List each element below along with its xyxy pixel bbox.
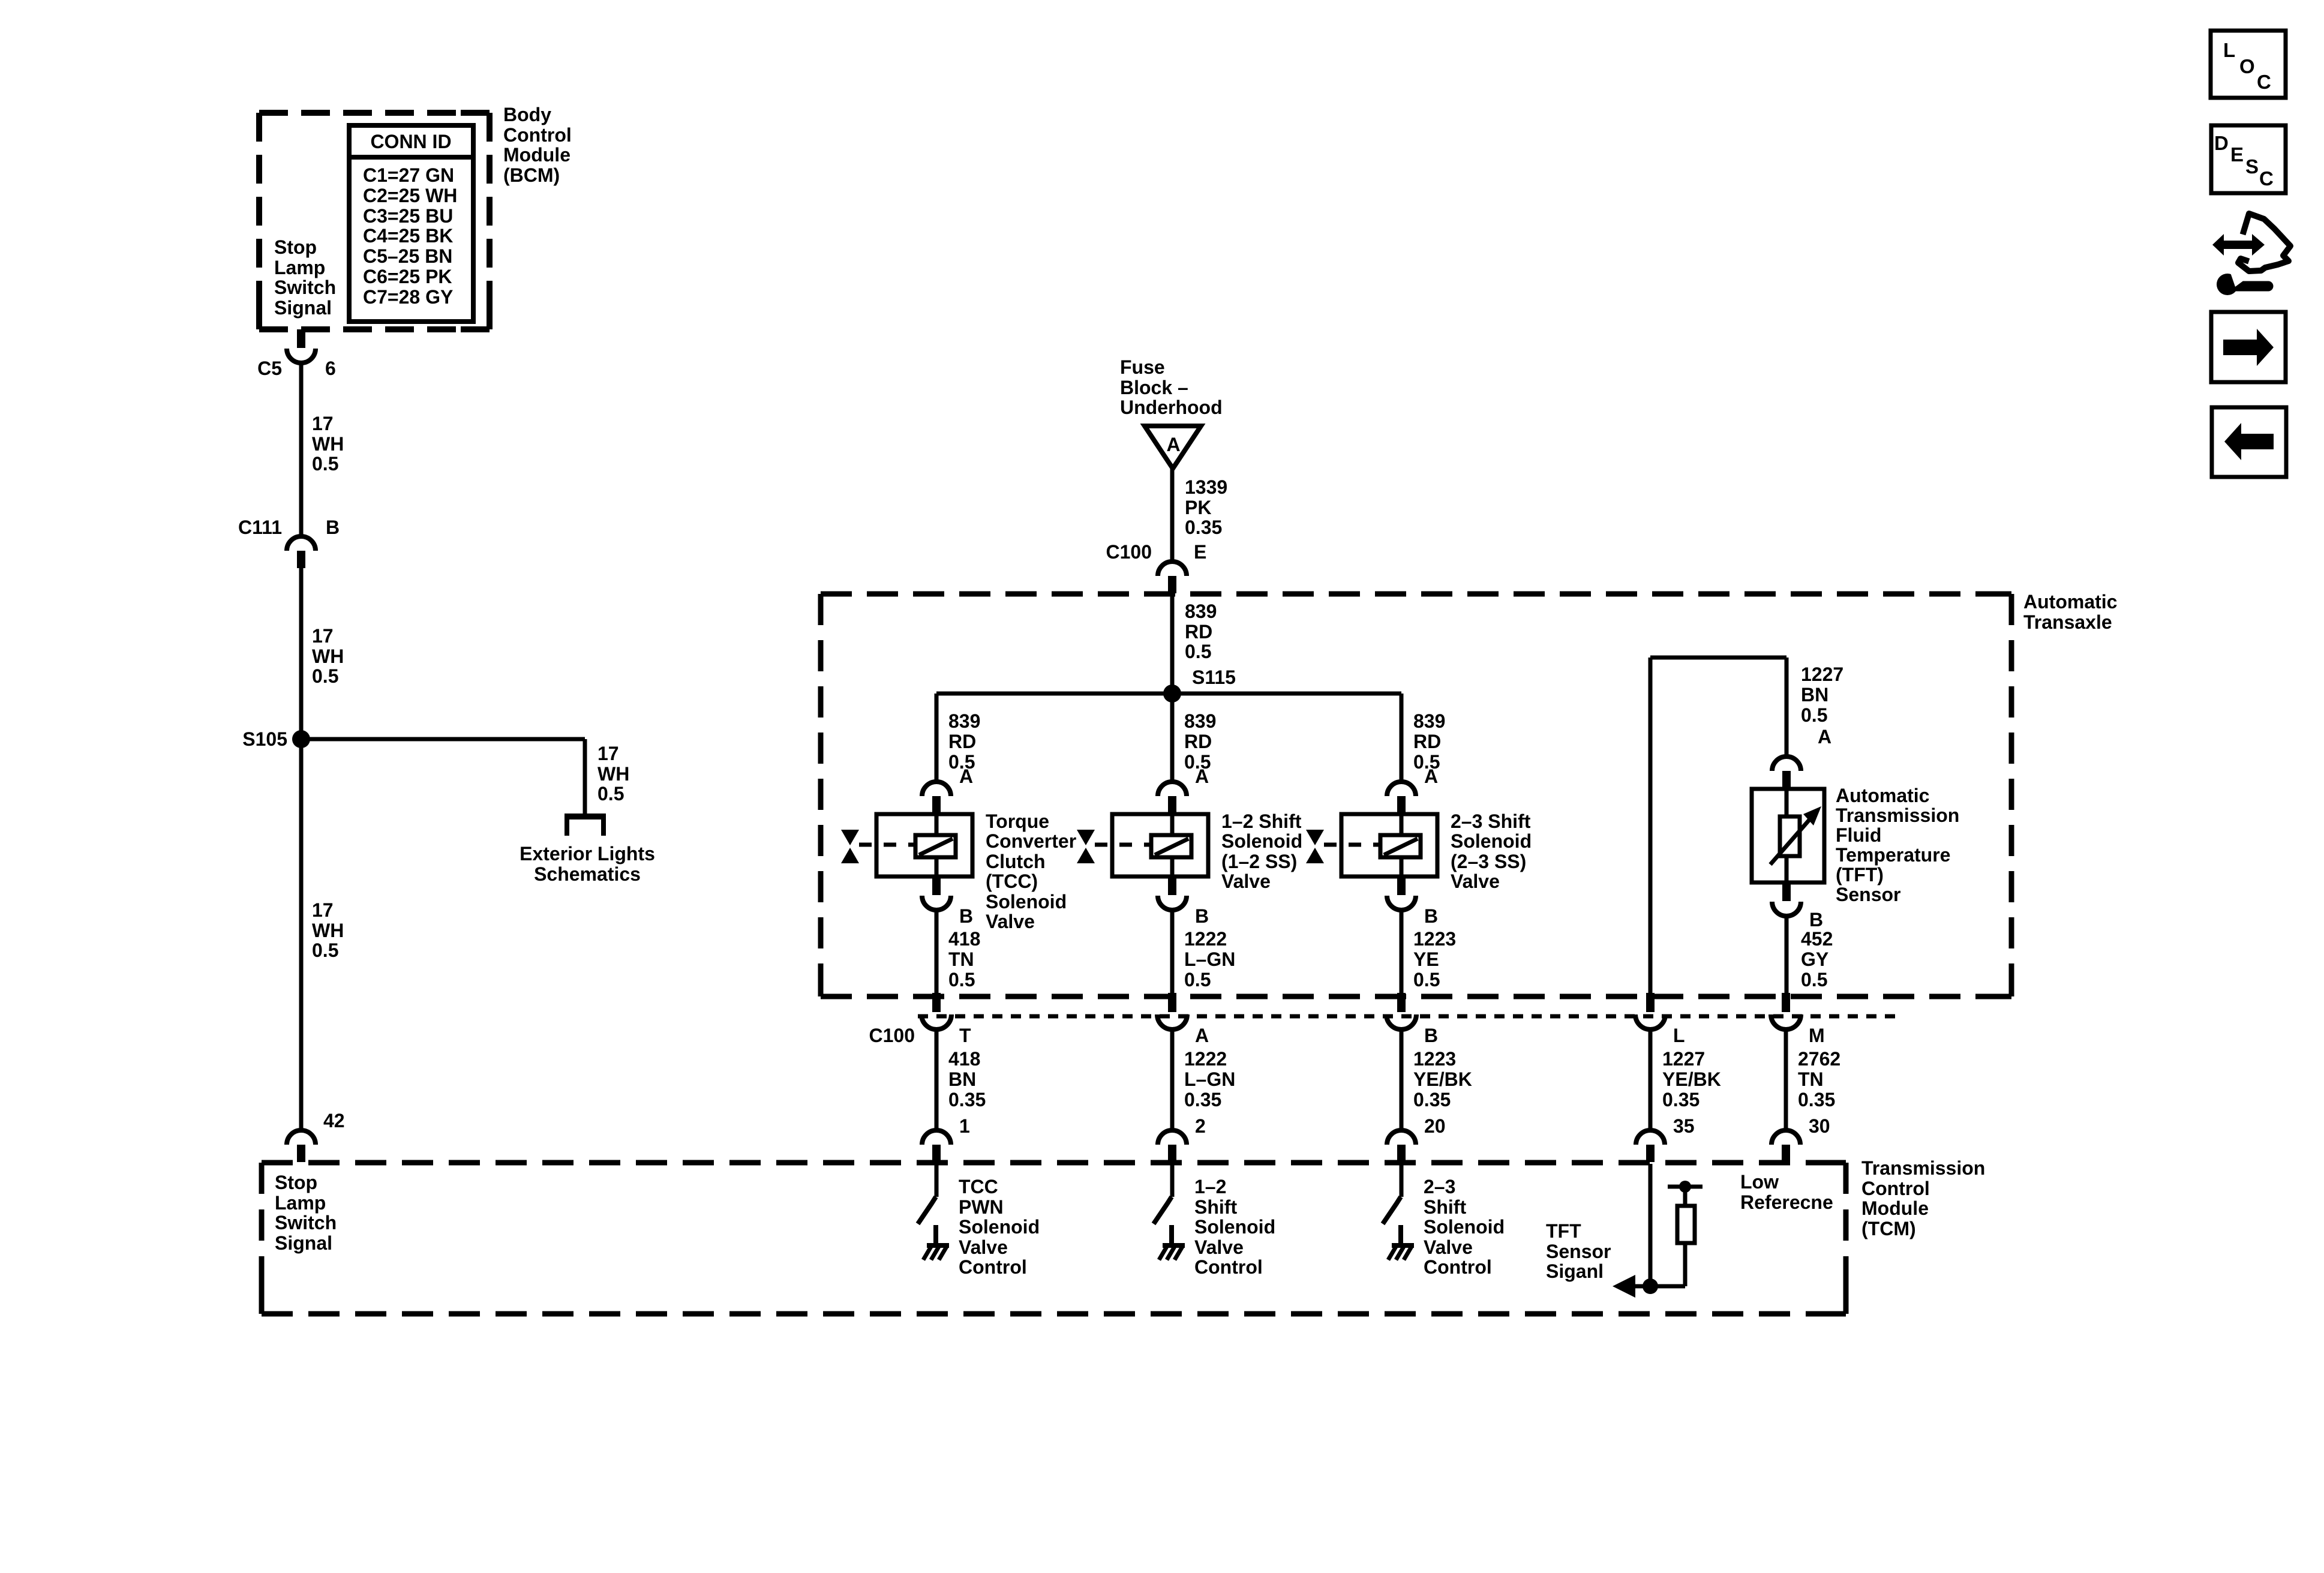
svg-text:C100: C100 [869,1025,915,1046]
svg-text:0.35: 0.35 [1413,1089,1451,1110]
svg-text:C100: C100 [1106,541,1152,563]
svg-text:S: S [2245,155,2259,178]
svg-text:L–GN: L–GN [1184,1068,1235,1090]
svg-text:Valve: Valve [1221,870,1271,892]
svg-text:Control: Control [1861,1178,1930,1199]
svg-text:C4=25 BK: C4=25 BK [363,225,453,247]
svg-text:17: 17 [312,899,334,921]
svg-text:Torque: Torque [986,810,1049,832]
svg-text:GY: GY [1801,948,1828,970]
svg-text:0.35: 0.35 [1798,1089,1835,1110]
svg-text:TCC: TCC [959,1176,998,1197]
svg-text:1–2 Shift: 1–2 Shift [1221,810,1302,832]
svg-text:PK: PK [1185,497,1211,518]
svg-text:CONN ID: CONN ID [370,131,451,152]
svg-text:A: A [959,766,973,787]
svg-text:L: L [2223,39,2235,61]
svg-text:E: E [1194,541,1206,563]
svg-text:Signal: Signal [274,297,332,319]
svg-text:Signal: Signal [275,1232,332,1254]
svg-text:WH: WH [597,763,629,785]
svg-text:Shift: Shift [1194,1196,1237,1218]
svg-text:Solenoid: Solenoid [959,1216,1040,1238]
svg-text:Solenoid: Solenoid [1451,830,1532,852]
svg-text:A: A [1195,766,1209,787]
svg-text:Automatic: Automatic [1836,785,1929,806]
svg-text:C6=25 PK: C6=25 PK [363,266,452,287]
svg-text:C: C [2259,167,2274,190]
svg-text:0.35: 0.35 [1184,1089,1221,1110]
svg-text:1: 1 [959,1115,970,1137]
svg-text:C2=25 WH: C2=25 WH [363,185,457,206]
svg-text:S105: S105 [242,728,287,750]
svg-text:A: A [1166,434,1180,455]
svg-text:B: B [1424,905,1438,927]
svg-text:20: 20 [1424,1115,1446,1137]
svg-text:42: 42 [323,1110,345,1131]
svg-text:Exterior Lights: Exterior Lights [520,843,655,864]
svg-text:2–3: 2–3 [1424,1176,1455,1197]
svg-text:Temperature: Temperature [1836,844,1950,866]
svg-text:YE/BK: YE/BK [1413,1068,1472,1090]
svg-text:Switch: Switch [274,277,336,298]
svg-text:Converter: Converter [986,830,1076,852]
svg-text:Underhood: Underhood [1120,397,1223,418]
svg-text:E: E [2230,143,2244,166]
svg-text:Transaxle: Transaxle [2023,611,2112,633]
svg-text:(2–3 SS): (2–3 SS) [1451,851,1526,872]
svg-text:Module: Module [1861,1197,1929,1219]
svg-text:0.5: 0.5 [1801,969,1827,990]
svg-text:17: 17 [312,413,334,434]
svg-text:Module: Module [503,144,571,166]
svg-text:0.5: 0.5 [948,969,975,990]
svg-text:(BCM): (BCM) [503,164,560,186]
svg-text:Control: Control [1424,1256,1492,1278]
svg-text:C1=27 GN: C1=27 GN [363,164,454,186]
svg-text:Clutch: Clutch [986,851,1046,872]
svg-text:Low: Low [1740,1171,1779,1193]
svg-text:0.5: 0.5 [1185,641,1211,662]
svg-text:L: L [1673,1025,1685,1046]
svg-text:TN: TN [948,948,974,970]
svg-text:Block –: Block – [1120,377,1188,398]
svg-text:Valve: Valve [959,1236,1008,1258]
svg-text:C7=28 GY: C7=28 GY [363,286,453,308]
svg-text:0.5: 0.5 [312,665,338,687]
svg-text:418: 418 [948,928,980,950]
svg-text:Schematics: Schematics [534,863,641,885]
svg-text:YE/BK: YE/BK [1662,1068,1721,1090]
svg-text:Lamp: Lamp [274,257,325,278]
svg-text:B: B [1424,1025,1438,1046]
svg-text:418: 418 [948,1048,980,1070]
svg-text:B: B [1809,909,1823,930]
svg-text:Body: Body [503,104,551,125]
svg-text:17: 17 [312,625,334,647]
svg-text:Siganl: Siganl [1546,1260,1604,1282]
svg-text:Stop: Stop [275,1172,317,1193]
svg-text:B: B [959,905,973,927]
svg-text:Fuse: Fuse [1120,356,1165,378]
svg-text:Lamp: Lamp [275,1192,326,1214]
svg-text:D: D [2214,132,2229,154]
svg-text:1222: 1222 [1184,928,1227,950]
svg-text:2–3 Shift: 2–3 Shift [1451,810,1531,832]
svg-text:RD: RD [1184,731,1212,752]
svg-text:C111: C111 [238,517,282,538]
svg-text:Valve: Valve [1451,870,1500,892]
svg-text:YE: YE [1413,948,1439,970]
svg-text:Shift: Shift [1424,1196,1466,1218]
svg-text:(TFT): (TFT) [1836,864,1884,885]
svg-text:0.35: 0.35 [1185,517,1222,538]
svg-text:M: M [1809,1025,1825,1046]
svg-text:2: 2 [1195,1115,1206,1137]
svg-text:BN: BN [948,1068,976,1090]
svg-text:839: 839 [1413,710,1445,732]
svg-text:Automatic: Automatic [2023,591,2117,613]
svg-text:1223: 1223 [1413,928,1456,950]
svg-text:6: 6 [325,358,336,379]
svg-text:Transmission: Transmission [1861,1157,1985,1179]
svg-text:(1–2 SS): (1–2 SS) [1221,851,1297,872]
svg-text:Fluid: Fluid [1836,824,1881,846]
svg-text:452: 452 [1801,928,1833,950]
svg-text:30: 30 [1809,1115,1830,1137]
svg-text:Sensor: Sensor [1546,1241,1611,1262]
svg-text:Control: Control [1194,1256,1263,1278]
svg-text:(TCC): (TCC) [986,870,1038,892]
svg-text:A: A [1424,766,1438,787]
svg-text:B: B [1195,905,1209,927]
svg-text:B: B [326,517,340,538]
svg-text:Control: Control [959,1256,1027,1278]
svg-text:Switch: Switch [275,1212,337,1233]
svg-text:Solenoid: Solenoid [986,891,1067,912]
svg-text:Valve: Valve [986,911,1035,932]
svg-text:0.5: 0.5 [1801,704,1827,726]
svg-text:1–2: 1–2 [1194,1176,1226,1197]
svg-text:Valve: Valve [1194,1236,1244,1258]
svg-text:2762: 2762 [1798,1048,1840,1070]
svg-text:0.5: 0.5 [312,939,338,961]
svg-text:C3=25 BU: C3=25 BU [363,205,453,227]
svg-text:RD: RD [1185,621,1212,643]
svg-text:35: 35 [1673,1115,1695,1137]
svg-text:0.5: 0.5 [597,783,624,804]
svg-text:0.5: 0.5 [312,453,338,475]
svg-text:1223: 1223 [1413,1048,1456,1070]
svg-text:(TCM): (TCM) [1861,1218,1916,1239]
svg-text:1339: 1339 [1185,476,1227,498]
svg-text:A: A [1195,1025,1209,1046]
svg-text:0.5: 0.5 [1413,969,1440,990]
svg-text:Solenoid: Solenoid [1424,1216,1505,1238]
svg-text:1222: 1222 [1184,1048,1227,1070]
svg-text:WH: WH [312,433,344,455]
svg-text:TFT: TFT [1546,1220,1581,1242]
svg-text:C: C [2257,71,2271,93]
svg-text:WH: WH [312,646,344,667]
svg-text:0.35: 0.35 [1662,1089,1700,1110]
svg-text:839: 839 [1185,601,1217,622]
svg-text:A: A [1818,726,1831,748]
svg-text:Transmission: Transmission [1836,804,1959,826]
svg-text:Control: Control [503,124,572,146]
svg-text:839: 839 [1184,710,1216,732]
svg-text:0.5: 0.5 [1184,969,1211,990]
svg-text:0.35: 0.35 [948,1089,986,1110]
svg-text:Valve: Valve [1424,1236,1473,1258]
svg-text:Sensor: Sensor [1836,884,1900,905]
svg-text:17: 17 [597,743,619,764]
svg-text:O: O [2239,55,2255,77]
svg-text:S115: S115 [1192,667,1236,688]
svg-text:WH: WH [312,920,344,941]
svg-text:C5–25 BN: C5–25 BN [363,245,452,267]
svg-text:T: T [959,1025,971,1046]
svg-text:1227: 1227 [1662,1048,1705,1070]
svg-text:Solenoid: Solenoid [1194,1216,1275,1238]
svg-text:Referecne: Referecne [1740,1191,1833,1213]
svg-text:PWN: PWN [959,1196,1004,1218]
svg-text:TN: TN [1798,1068,1824,1090]
svg-text:Stop: Stop [274,236,317,258]
svg-text:BN: BN [1801,684,1828,706]
svg-text:RD: RD [1413,731,1441,752]
svg-text:Solenoid: Solenoid [1221,830,1302,852]
svg-text:C5: C5 [257,358,282,379]
svg-text:L–GN: L–GN [1184,948,1235,970]
svg-text:839: 839 [948,710,980,732]
svg-text:RD: RD [948,731,976,752]
svg-text:1227: 1227 [1801,664,1843,685]
